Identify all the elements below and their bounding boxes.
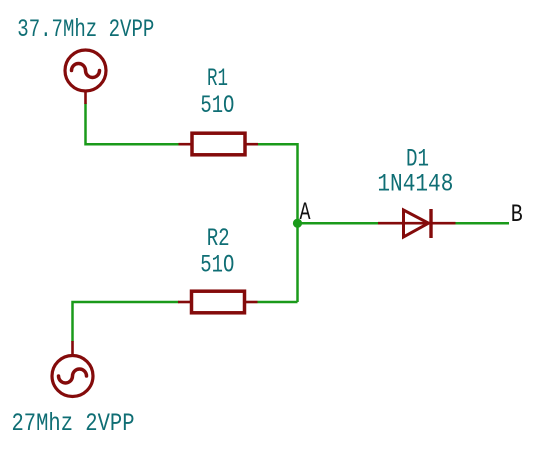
svg-text:B: B <box>511 200 523 229</box>
svg-text:R1: R1 <box>207 64 228 93</box>
svg-text:37.7Mhz 2VPP: 37.7Mhz 2VPP <box>17 15 154 44</box>
svg-text:51O: 51O <box>200 91 234 120</box>
svg-text:1N4148: 1N4148 <box>377 170 453 199</box>
svg-text:51O: 51O <box>200 251 234 280</box>
svg-text:R2: R2 <box>207 224 230 253</box>
svg-text:27Mhz 2VPP: 27Mhz 2VPP <box>12 409 135 438</box>
svg-text:A: A <box>300 198 311 227</box>
